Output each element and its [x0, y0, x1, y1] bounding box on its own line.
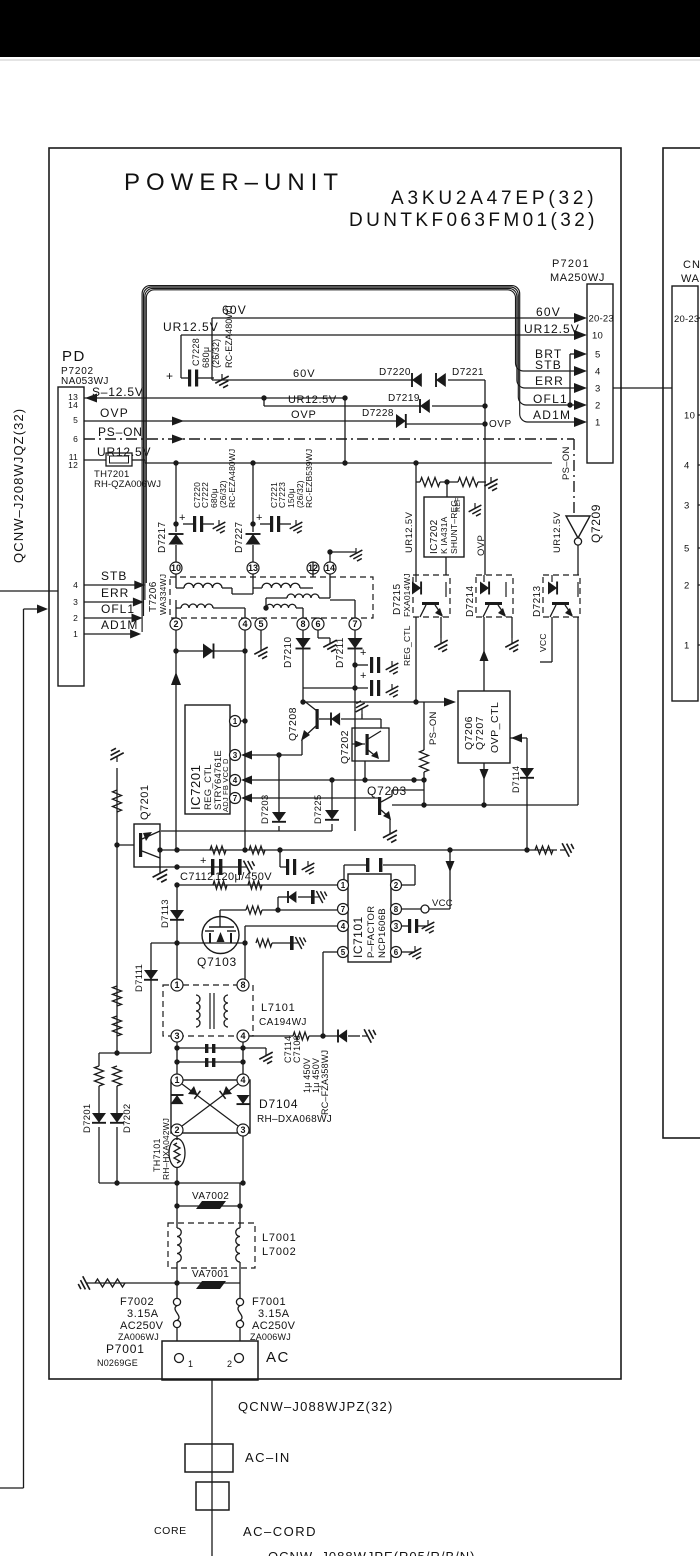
svg-text:DUNTKF063FM01(32): DUNTKF063FM01(32): [349, 210, 598, 231]
svg-text:NCP1606B: NCP1606B: [377, 908, 388, 958]
svg-text:PD: PD: [62, 348, 86, 365]
svg-text:2: 2: [595, 401, 600, 412]
svg-text:14: 14: [68, 400, 78, 410]
svg-text:3.15A: 3.15A: [127, 1308, 159, 1320]
svg-text:1: 1: [188, 1359, 193, 1369]
svg-text:60V: 60V: [293, 368, 316, 380]
svg-text:+: +: [360, 647, 366, 659]
svg-text:2: 2: [684, 581, 690, 592]
svg-text:D7202: D7202: [122, 1104, 133, 1134]
svg-text:3: 3: [394, 922, 399, 931]
svg-text:F7001: F7001: [252, 1296, 286, 1308]
svg-text:WA334WJ: WA334WJ: [158, 574, 168, 615]
svg-text:5: 5: [595, 350, 600, 361]
svg-text:+: +: [360, 670, 366, 682]
svg-text:2: 2: [73, 613, 78, 623]
svg-text:IC7101: IC7101: [351, 916, 365, 958]
svg-text:UR12.5V: UR12.5V: [552, 511, 563, 553]
svg-text:C7108: C7108: [292, 1035, 302, 1063]
svg-text:AD1M: AD1M: [101, 618, 138, 632]
svg-text:RH–DXA068WJ: RH–DXA068WJ: [257, 1114, 332, 1125]
svg-text:RH-QZA006WJ: RH-QZA006WJ: [94, 479, 161, 490]
svg-text:REG_CTL: REG_CTL: [402, 625, 412, 666]
svg-text:1: 1: [341, 881, 346, 890]
svg-text:OFL1: OFL1: [101, 602, 135, 616]
svg-text:Q7103: Q7103: [197, 955, 237, 969]
svg-text:K IA431A: K IA431A: [439, 516, 449, 554]
svg-text:VCC: VCC: [538, 633, 548, 652]
svg-text:OVP: OVP: [291, 409, 317, 421]
svg-text:3.15A: 3.15A: [258, 1308, 290, 1320]
svg-text:7: 7: [352, 619, 357, 629]
svg-text:CA194WJ: CA194WJ: [259, 1017, 307, 1028]
svg-text:WAC: WAC: [681, 273, 700, 285]
svg-text:L7002: L7002: [262, 1246, 297, 1258]
svg-text:D7217: D7217: [157, 521, 168, 553]
svg-text:QCNW–J088WJPE(R05/R/B/N): QCNW–J088WJPE(R05/R/B/N): [268, 1549, 475, 1556]
svg-text:10: 10: [684, 411, 695, 422]
svg-text:ADJ FB VCC D: ADJ FB VCC D: [221, 758, 230, 812]
svg-text:+: +: [200, 855, 206, 867]
svg-text:1: 1: [595, 418, 600, 429]
svg-text:10: 10: [171, 563, 181, 573]
svg-text:S–12.5V: S–12.5V: [92, 385, 144, 399]
svg-text:D7113: D7113: [160, 899, 171, 928]
svg-text:2: 2: [173, 619, 178, 629]
svg-text:1: 1: [174, 1075, 179, 1085]
svg-text:2: 2: [394, 881, 399, 890]
svg-text:7: 7: [341, 905, 346, 914]
svg-text:OFL1: OFL1: [533, 392, 568, 406]
svg-text:RC-EZA480WJ: RC-EZA480WJ: [227, 449, 237, 508]
svg-text:A3KU2A47EP(32): A3KU2A47EP(32): [391, 188, 597, 209]
svg-text:P7001: P7001: [106, 1342, 145, 1356]
svg-text:4: 4: [341, 922, 346, 931]
svg-text:6: 6: [394, 948, 399, 957]
svg-text:UR12.5V: UR12.5V: [524, 322, 580, 336]
svg-text:10: 10: [592, 331, 603, 342]
svg-text:D7219: D7219: [388, 393, 420, 404]
svg-text:OVP: OVP: [100, 406, 129, 420]
svg-text:D7221: D7221: [452, 367, 484, 378]
svg-text:ZA006WJ: ZA006WJ: [118, 1332, 159, 1342]
svg-text:20-23: 20-23: [589, 314, 614, 325]
svg-text:680μ: 680μ: [201, 347, 211, 368]
svg-text:5: 5: [684, 544, 690, 555]
svg-text:(26/32): (26/32): [211, 339, 221, 368]
svg-text:D7203: D7203: [260, 795, 271, 825]
svg-text:5: 5: [73, 415, 78, 425]
svg-text:Q7208: Q7208: [287, 707, 299, 741]
svg-text:PS–ON: PS–ON: [561, 446, 572, 480]
svg-text:7: 7: [233, 794, 238, 803]
svg-text:20-23: 20-23: [674, 314, 699, 325]
svg-text:D7214: D7214: [465, 585, 476, 617]
svg-text:P–FACTOR: P–FACTOR: [366, 906, 377, 958]
svg-text:4: 4: [240, 1031, 245, 1041]
svg-text:3: 3: [73, 597, 78, 607]
svg-text:VA7001: VA7001: [192, 1269, 229, 1280]
svg-text:Q7203: Q7203: [367, 784, 407, 798]
svg-text:OVP_CTL: OVP_CTL: [489, 702, 501, 753]
svg-text:ERR: ERR: [101, 586, 129, 600]
svg-text:14: 14: [325, 563, 335, 573]
svg-text:VA7002: VA7002: [192, 1191, 229, 1202]
svg-text:4: 4: [595, 367, 600, 378]
svg-text:PS–ON: PS–ON: [98, 425, 143, 439]
svg-text:4: 4: [73, 580, 78, 590]
svg-text:QCNW–J088WJPZ(32): QCNW–J088WJPZ(32): [238, 1399, 393, 1414]
svg-text:L7101: L7101: [261, 1002, 296, 1014]
svg-text:FXA014WJ: FXA014WJ: [402, 573, 412, 617]
svg-text:4: 4: [240, 1075, 245, 1085]
svg-text:+: +: [179, 512, 185, 524]
svg-text:8: 8: [240, 980, 245, 990]
svg-text:3: 3: [684, 501, 690, 512]
svg-text:4: 4: [242, 619, 247, 629]
svg-text:3: 3: [595, 384, 600, 395]
svg-text:D7213: D7213: [532, 585, 543, 617]
svg-text:RC-EZB539WJ: RC-EZB539WJ: [304, 449, 314, 508]
svg-text:OVP: OVP: [489, 419, 512, 430]
svg-text:UR12.5V: UR12.5V: [404, 511, 415, 553]
svg-text:D7201: D7201: [82, 1104, 93, 1134]
svg-text:+: +: [166, 369, 173, 383]
svg-text:4: 4: [684, 461, 690, 472]
svg-text:8: 8: [300, 619, 305, 629]
svg-text:P7201: P7201: [552, 258, 590, 270]
svg-text:1: 1: [684, 641, 690, 652]
svg-text:13: 13: [248, 563, 258, 573]
svg-text:D7210: D7210: [283, 636, 294, 668]
svg-text:2: 2: [174, 1125, 179, 1135]
svg-text:RH–HXA042WJ: RH–HXA042WJ: [161, 1118, 171, 1180]
svg-text:F7002: F7002: [120, 1296, 154, 1308]
svg-text:6: 6: [315, 619, 320, 629]
svg-text:8: 8: [394, 905, 399, 914]
svg-text:AC250V: AC250V: [252, 1320, 296, 1332]
svg-text:3: 3: [174, 1031, 179, 1041]
svg-text:N0269GE: N0269GE: [97, 1358, 138, 1368]
svg-text:1: 1: [174, 980, 179, 990]
svg-text:ERR: ERR: [535, 374, 564, 388]
svg-text:AC–CORD: AC–CORD: [243, 1524, 317, 1539]
svg-text:STB: STB: [535, 358, 562, 372]
svg-text:L7001: L7001: [262, 1232, 297, 1244]
svg-text:Q7209: Q7209: [589, 504, 603, 543]
svg-text:3: 3: [240, 1125, 245, 1135]
svg-text:D7114: D7114: [511, 766, 521, 793]
svg-text:+: +: [256, 512, 262, 524]
svg-text:D7225: D7225: [313, 795, 324, 825]
svg-text:UR12.5V: UR12.5V: [163, 320, 219, 334]
svg-text:POWER–UNIT: POWER–UNIT: [124, 169, 344, 196]
svg-text:D7228: D7228: [362, 408, 394, 419]
svg-text:AD1M: AD1M: [533, 408, 571, 422]
svg-text:AC–IN: AC–IN: [245, 1450, 291, 1465]
svg-text:D7227: D7227: [234, 521, 245, 553]
svg-text:OVP: OVP: [476, 535, 487, 556]
svg-text:6: 6: [73, 434, 78, 444]
svg-text:C7112: C7112: [180, 871, 214, 883]
svg-text:Q7201: Q7201: [139, 784, 151, 820]
svg-text:C7228: C7228: [191, 338, 201, 366]
svg-text:D7104: D7104: [259, 1097, 298, 1111]
svg-text:D7220: D7220: [379, 367, 411, 378]
svg-text:Q7207: Q7207: [474, 716, 486, 750]
svg-text:UR12.5V: UR12.5V: [288, 394, 337, 406]
svg-text:5: 5: [341, 948, 346, 957]
svg-text:4: 4: [233, 776, 238, 785]
svg-text:1: 1: [233, 717, 238, 726]
svg-text:2: 2: [227, 1359, 232, 1369]
svg-text:REF: REF: [455, 497, 462, 512]
svg-text:D7111: D7111: [134, 964, 145, 992]
svg-text:60V: 60V: [536, 305, 561, 319]
svg-text:MA250WJ: MA250WJ: [550, 272, 605, 284]
svg-text:RC–FZA358WJ: RC–FZA358WJ: [320, 1050, 330, 1115]
svg-text:IC7201: IC7201: [188, 764, 203, 810]
svg-text:STB: STB: [101, 569, 127, 583]
svg-text:CORE: CORE: [154, 1525, 187, 1537]
svg-text:3: 3: [233, 751, 238, 760]
svg-text:5: 5: [258, 619, 263, 629]
svg-text:CNP: CNP: [683, 259, 700, 271]
svg-text:D7211: D7211: [335, 637, 346, 668]
svg-text:PS–ON: PS–ON: [428, 711, 439, 745]
svg-text:QCNW–J208WJQZ(32): QCNW–J208WJQZ(32): [11, 408, 26, 563]
svg-text:AC250V: AC250V: [120, 1320, 164, 1332]
svg-text:RC-EZA480WJ: RC-EZA480WJ: [224, 305, 234, 368]
svg-text:Q7202: Q7202: [339, 730, 351, 764]
svg-text:1: 1: [73, 629, 78, 639]
svg-text:12: 12: [68, 460, 78, 470]
svg-text:AC: AC: [266, 1349, 290, 1366]
